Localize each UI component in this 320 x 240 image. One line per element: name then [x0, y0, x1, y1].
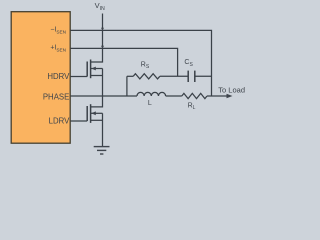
- wire RL to output node: [207, 95, 212, 97]
- transistor Q2 body arrow: [91, 111, 96, 115]
- svg-text:L: L: [148, 100, 152, 107]
- transistor Q1 source stub: [91, 75, 103, 77]
- wire V_IN vertical to Q1 drain: [91, 14, 103, 63]
- wire Q2 source to ground: [102, 113, 104, 146]
- transistor Q2 channel bar: [90, 104, 92, 123]
- wire Cs to output node: [195, 75, 212, 77]
- transistor Q1 body stub: [91, 68, 103, 70]
- wire output node to load arrow: [212, 95, 228, 97]
- resistor RL: [182, 93, 207, 98]
- wire +I_SEN rail, down to Rs-Cs junction: [71, 48, 178, 76]
- svg-text:LDRV: LDRV: [49, 117, 70, 126]
- svg-text:HDRV: HDRV: [47, 72, 70, 81]
- wire LDRV lead: [71, 120, 88, 122]
- arrowhead on V_IN feed at -I_SEN crossing: [101, 28, 104, 31]
- arrowhead To Load: [227, 94, 233, 98]
- wire phase node up to sense branch: [126, 76, 128, 96]
- wire L to RL: [166, 95, 182, 97]
- transistor Q1 channel bar: [90, 60, 92, 79]
- wire sense branch to Rs: [127, 75, 133, 77]
- resistor Rs: [133, 74, 160, 79]
- wire Rs to Cs: [160, 75, 188, 77]
- svg-text:To Load: To Load: [218, 85, 245, 94]
- controller IC block U1: [11, 12, 70, 144]
- wire HDRV lead: [71, 76, 88, 78]
- wire -I_SEN rail to top-right corner, down to output node: [71, 30, 212, 96]
- transistor Q2 gate bar: [86, 106, 88, 121]
- svg-text:PHASE: PHASE: [43, 93, 69, 102]
- ground: [94, 147, 110, 154]
- wire Q1 source to PHASE to Q2 drain: [91, 69, 103, 107]
- inductor L: [137, 92, 166, 96]
- transistor Q1 body arrow: [91, 67, 96, 71]
- transistor Q2 body stub: [91, 112, 103, 114]
- transistor Q2 source stub: [91, 119, 103, 121]
- wire PHASE line: [71, 95, 138, 97]
- capacitor Cs plates: [187, 71, 189, 82]
- arrowhead on V_IN feed at +I_SEN crossing: [101, 46, 104, 49]
- transistor Q1 gate bar: [86, 62, 88, 77]
